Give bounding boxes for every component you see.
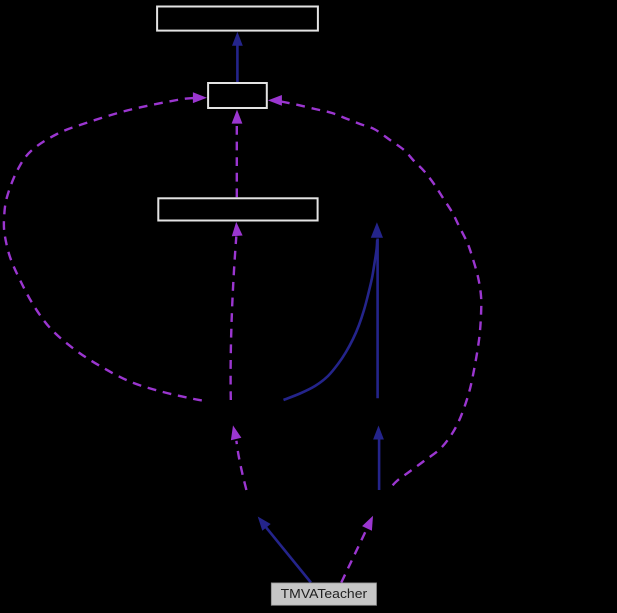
svg-text:TMVATeacher: TMVATeacher [281, 586, 368, 601]
